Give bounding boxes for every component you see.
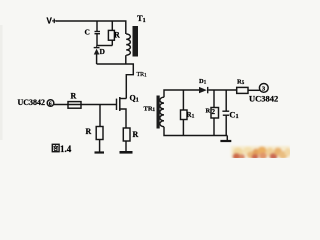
svg-text:R: R [133, 130, 139, 139]
svg-text:R: R [86, 127, 92, 136]
svg-text:6: 6 [49, 101, 52, 107]
svg-text:UC3842: UC3842 [249, 94, 278, 104]
svg-text:R: R [206, 108, 211, 115]
svg-text:R: R [71, 92, 77, 101]
svg-text:R: R [114, 31, 120, 40]
svg-text:1.4: 1.4 [60, 144, 72, 154]
svg-text:D: D [100, 47, 106, 56]
svg-text:C: C [85, 28, 90, 37]
svg-text:V+: V+ [47, 16, 57, 25]
svg-text:UC3842: UC3842 [18, 98, 46, 107]
svg-text:2: 2 [212, 108, 216, 116]
svg-text:TR1: TR1 [137, 72, 148, 79]
